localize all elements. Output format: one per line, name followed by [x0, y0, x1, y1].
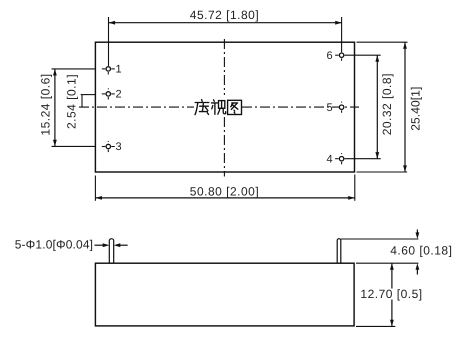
svg-text:5: 5 [327, 102, 333, 114]
svg-text:3: 3 [116, 141, 122, 153]
svg-text:2: 2 [116, 89, 122, 101]
svg-text:20.32 [0.8]: 20.32 [0.8] [380, 73, 394, 135]
svg-text:2.54 [0.1]: 2.54 [0.1] [64, 74, 78, 129]
svg-text:12.70 [0.5]: 12.70 [0.5] [360, 287, 422, 301]
svg-text:1: 1 [116, 64, 122, 76]
svg-text:6: 6 [327, 50, 333, 62]
svg-text:45.72 [1.80]: 45.72 [1.80] [190, 8, 259, 22]
svg-text:4.60 [0.18]: 4.60 [0.18] [390, 243, 452, 257]
svg-text:5-Φ1.0[Φ0.04]: 5-Φ1.0[Φ0.04] [15, 238, 93, 252]
svg-text:50.80 [2.00]: 50.80 [2.00] [190, 184, 259, 198]
svg-text:25.40[1]: 25.40[1] [408, 87, 422, 131]
svg-text:15.24 [0.6]: 15.24 [0.6] [38, 73, 52, 135]
svg-text:4: 4 [327, 153, 333, 165]
